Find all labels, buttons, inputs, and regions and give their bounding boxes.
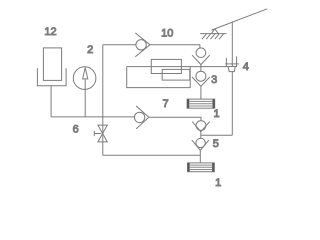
cylinder U4 piston line: [225, 63, 239, 65]
cylinder U4 cup body: [226, 56, 236, 66]
check valve 10: [135, 33, 150, 57]
wire: left vertical line through valve 6: [102, 45, 104, 156]
svg-text:2: 2: [87, 44, 93, 56]
check valve 7: [134, 106, 148, 129]
svg-text:1: 1: [215, 177, 221, 189]
wire: from check valve 7 to corner down into valve B: [149, 117, 201, 121]
wire: right bus bottom horizontal to check valve junction: [201, 134, 233, 136]
ground baseline: [200, 33, 226, 35]
slide block upper rectangle: [151, 59, 181, 73]
wire: rod from lever down to cylinder 4: [231, 21, 233, 66]
wire: line from check valve 10 to valve A corner: [150, 45, 200, 48]
pivot support legs: [211, 29, 218, 34]
check valve A (above valve 3): [192, 48, 210, 67]
cylinder 12 cup body: [37, 68, 66, 86]
cylinder 12 plunger: [43, 48, 61, 81]
svg-text:10: 10: [161, 27, 173, 39]
wire: main bottom bus: [51, 116, 134, 118]
lever (inclined line, top right): [212, 9, 268, 30]
wire: bottom line from valve 6 to tank 2 drop: [103, 154, 201, 156]
wire: cylinder 12 down to bus: [50, 86, 52, 117]
pump 2 circle: [73, 67, 96, 90]
check valve 5: [192, 138, 209, 163]
pump 2 arrow: [83, 68, 88, 79]
wire: pump shaft down to bus: [84, 79, 86, 117]
svg-text:4: 4: [243, 61, 249, 73]
tank 1 (upper hatched reservoir): [187, 99, 215, 108]
check valve B (below tank 1): [192, 121, 210, 139]
wire: long horizontal line from slide block to cylinder 4 cup: [127, 66, 227, 68]
valve 6 handle: [94, 131, 101, 136]
slide block small rectangle: [162, 69, 190, 80]
svg-text:12: 12: [44, 26, 56, 38]
wire: right bus down from cylinder 4: [231, 72, 233, 136]
wire: from left corner to check valve 10: [103, 44, 136, 46]
svg-text:1: 1: [214, 108, 220, 120]
shut-off valve 6 bowtie: [98, 125, 107, 142]
svg-text:7: 7: [162, 98, 168, 110]
ground hatch strokes: [202, 34, 224, 40]
svg-text:3: 3: [211, 74, 217, 86]
svg-text:5: 5: [213, 138, 219, 150]
svg-text:6: 6: [73, 123, 79, 135]
check valve C3: [192, 67, 210, 100]
cylinder U4 lower block: [228, 67, 235, 72]
tank 2 (lower hatched reservoir): [188, 163, 215, 172]
slide block big rectangle: [127, 67, 191, 88]
